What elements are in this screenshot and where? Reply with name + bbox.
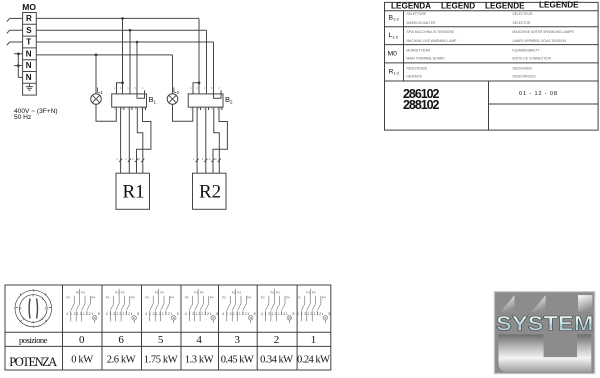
B2 internal bridge bbox=[214, 94, 222, 98]
wire N to L1 bbox=[95, 55, 97, 94]
svg-text:LEGENDA: LEGENDA bbox=[391, 2, 431, 11]
svg-text:288102: 288102 bbox=[403, 98, 440, 112]
svg-text:0: 0 bbox=[79, 334, 85, 346]
svg-text:5: 5 bbox=[23, 317, 25, 321]
svg-text:N: N bbox=[26, 49, 32, 58]
R2 terminal marks bbox=[196, 159, 221, 162]
schematic labels bbox=[14, 2, 233, 202]
svg-text:1.3 kW: 1.3 kW bbox=[185, 354, 214, 365]
svg-text:0: 0 bbox=[32, 293, 34, 297]
svg-text:MO: MO bbox=[22, 2, 36, 12]
legend date cell line bbox=[489, 103, 599, 105]
wire S drop to B2 bbox=[206, 30, 208, 94]
wire B1 to R1 #1 bbox=[120, 111, 122, 174]
bus S bbox=[36, 29, 206, 31]
B1 bottom pins bbox=[116, 107, 145, 110]
svg-text:R1: R1 bbox=[123, 182, 145, 203]
svg-text:50 Hz: 50 Hz bbox=[14, 114, 31, 121]
node S bus bbox=[129, 29, 132, 32]
wire T drop to B2 bbox=[213, 42, 215, 94]
svg-text:M0: M0 bbox=[388, 50, 398, 57]
svg-text:R: R bbox=[26, 14, 32, 23]
wire L2 to B2 pin bbox=[173, 104, 193, 121]
bus N bbox=[36, 54, 172, 56]
svg-text:SPIA MACCHINA IN TENSIONE: SPIA MACCHINA IN TENSIONE bbox=[407, 30, 455, 34]
wire B2 to R2 #4 stepped bbox=[213, 111, 227, 174]
svg-text:6: 6 bbox=[20, 307, 22, 311]
wire branch to B1 pin1 bbox=[117, 83, 123, 94]
wire N to L2 bbox=[172, 55, 174, 94]
svg-text:SELECTEUR: SELECTEUR bbox=[513, 12, 533, 16]
svg-text:KLEMMENBRETT: KLEMMENBRETT bbox=[513, 48, 540, 52]
wire R drop to B2 bbox=[198, 18, 200, 94]
B1 top pins bbox=[117, 90, 145, 94]
svg-text:2: 2 bbox=[274, 334, 280, 346]
supply entry ticks bbox=[7, 18, 10, 45]
svg-text:2.6 kW: 2.6 kW bbox=[107, 354, 136, 365]
svg-text:R2: R2 bbox=[199, 182, 221, 203]
svg-text:MACHINE LIVE WARNING LAMP: MACHINE LIVE WARNING LAMP bbox=[407, 39, 458, 43]
node T bus bbox=[136, 41, 139, 44]
wire B1 to R1 #2 bbox=[128, 111, 130, 174]
wire branch to B2 pin1 bbox=[193, 83, 199, 94]
svg-text:WAEHLSCHALTER: WAEHLSCHALTER bbox=[407, 21, 437, 25]
terminal board MO bbox=[23, 13, 37, 96]
node R bus / B1 drop bbox=[121, 17, 124, 20]
POTENZA row bbox=[9, 354, 330, 369]
wire T drop to B1 bbox=[136, 42, 138, 94]
svg-text:0.34 kW: 0.34 kW bbox=[260, 354, 293, 365]
svg-text:LEGENDE: LEGENDE bbox=[485, 2, 525, 11]
heater R1 bbox=[116, 173, 150, 209]
junction N2 jumper bbox=[17, 64, 20, 67]
svg-text:SYSTEM: SYSTEM bbox=[496, 312, 594, 335]
wire S drop to B1 bbox=[129, 30, 131, 94]
svg-text:1.75 kW: 1.75 kW bbox=[144, 354, 178, 365]
junction N1 jumper bbox=[17, 53, 20, 56]
bus R bbox=[36, 17, 199, 19]
svg-text:LEGEND: LEGEND bbox=[441, 2, 475, 11]
logo band bbox=[499, 334, 592, 372]
R1 terminal marks bbox=[119, 159, 144, 162]
svg-text:HEIZUNGEN: HEIZUNGEN bbox=[513, 66, 533, 70]
wire B1 to R1 #4 stepped bbox=[137, 111, 151, 174]
svg-text:MORSETTIERA: MORSETTIERA bbox=[407, 48, 432, 52]
logo triangle 1 bbox=[501, 295, 515, 312]
wire R drop to B1 bbox=[122, 18, 124, 94]
legend header underline bbox=[385, 10, 599, 12]
svg-text:N: N bbox=[26, 61, 32, 70]
B1 internal bridge bbox=[137, 94, 145, 98]
wire B2 to R2 #2 bbox=[205, 111, 207, 174]
lamp L2 bbox=[167, 94, 178, 105]
power table outer box bbox=[5, 285, 331, 370]
svg-text:BOITE DE CONNECTION: BOITE DE CONNECTION bbox=[513, 57, 552, 61]
svg-text:6: 6 bbox=[118, 334, 124, 346]
svg-text:2: 2 bbox=[45, 307, 47, 311]
svg-text:4: 4 bbox=[32, 321, 34, 325]
svg-text:01 - 12 - 08: 01 - 12 - 08 bbox=[519, 91, 557, 97]
wire B2 to R2 #1 bbox=[196, 111, 198, 174]
svg-text:MAIN TERMINAL BOARD: MAIN TERMINAL BOARD bbox=[407, 57, 446, 61]
logo square bbox=[578, 295, 592, 312]
svg-text:LEGENDE: LEGENDE bbox=[539, 1, 579, 10]
svg-text:T: T bbox=[26, 38, 31, 47]
svg-text:LAMPE APPAREIL SOUS TENSION: LAMPE APPAREIL SOUS TENSION bbox=[513, 39, 567, 43]
svg-text:3: 3 bbox=[235, 334, 241, 346]
svg-text:0.45 kW: 0.45 kW bbox=[221, 354, 254, 365]
logo background bbox=[494, 292, 595, 374]
svg-text:5: 5 bbox=[158, 334, 164, 346]
B2 top pins bbox=[193, 90, 221, 94]
logo triangle 2 bbox=[532, 295, 546, 312]
B2 bottom pins bbox=[193, 107, 222, 110]
node B1 branch bbox=[121, 81, 124, 84]
heater R2 bbox=[193, 173, 227, 209]
legend symbol column line bbox=[403, 11, 405, 81]
legend row lines bbox=[385, 27, 599, 81]
svg-text:S: S bbox=[26, 26, 32, 35]
MO left N stubs with jumper bbox=[14, 54, 23, 78]
MO left supply stubs R S T bbox=[10, 18, 23, 42]
switch B2 body bbox=[188, 94, 223, 107]
svg-text:1: 1 bbox=[42, 296, 44, 300]
legend bottom divider bbox=[488, 81, 490, 130]
switch B1 body bbox=[112, 94, 147, 107]
ground symbol bbox=[26, 84, 33, 90]
power table column lines bbox=[63, 285, 298, 370]
svg-text:0.24 kW: 0.24 kW bbox=[297, 354, 330, 365]
svg-text:MASCHINE UNTER SPANNUNG-LAMPE: MASCHINE UNTER SPANNUNG-LAMPE bbox=[513, 30, 575, 34]
svg-text:SELECTOR: SELECTOR bbox=[513, 21, 531, 25]
wire L1 to B1 pin bbox=[96, 104, 116, 121]
svg-text:RESISTANCES: RESISTANCES bbox=[513, 75, 537, 79]
svg-text:4: 4 bbox=[196, 334, 202, 346]
svg-text:1: 1 bbox=[311, 334, 317, 346]
svg-text:POTENZA: POTENZA bbox=[9, 355, 57, 369]
position diagrams row bbox=[66, 289, 100, 323]
svg-text:RESISTENZE: RESISTENZE bbox=[407, 66, 429, 70]
svg-text:N: N bbox=[26, 73, 32, 82]
wire B1 to R1 #3 stepped bbox=[137, 111, 143, 174]
node B2 branch bbox=[198, 81, 201, 84]
posizione row bbox=[19, 334, 316, 346]
lamp L1 bbox=[91, 94, 102, 105]
logo SYSTEM text bbox=[496, 312, 594, 335]
power table row lines bbox=[5, 332, 331, 346]
svg-text:posizione: posizione bbox=[19, 335, 48, 345]
svg-text:3: 3 bbox=[41, 317, 43, 321]
svg-text:SELETTORE: SELETTORE bbox=[407, 12, 427, 16]
svg-text:0 kW: 0 kW bbox=[71, 354, 93, 365]
legend outer box bbox=[385, 2, 599, 130]
bus T bbox=[36, 41, 213, 43]
wire B2 to R2 #3 stepped bbox=[214, 111, 220, 174]
svg-text:HEATERS: HEATERS bbox=[407, 75, 423, 79]
rotary selector bbox=[15, 289, 52, 328]
B pin micro labels bbox=[114, 86, 222, 161]
node N bus lamp tap bbox=[95, 54, 98, 57]
